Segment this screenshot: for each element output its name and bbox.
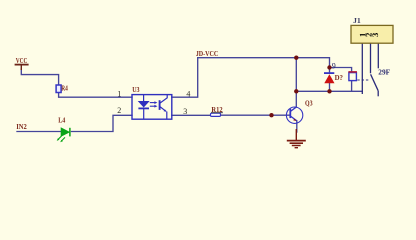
svg-text:VCC: VCC	[16, 56, 28, 65]
svg-text:3: 3	[183, 107, 187, 116]
svg-text:D?: D?	[335, 73, 344, 82]
svg-text:R4: R4	[61, 84, 68, 92]
svg-text:4: 4	[186, 90, 190, 99]
svg-text:29F: 29F	[378, 68, 390, 76]
svg-text:IN2: IN2	[16, 122, 27, 131]
svg-text:3: 3	[370, 33, 380, 37]
svg-text:J1: J1	[353, 16, 361, 25]
svg-text:Q3: Q3	[305, 100, 313, 108]
svg-text:JD-VCC: JD-VCC	[196, 49, 219, 58]
svg-text:2: 2	[117, 106, 121, 115]
svg-text:L4: L4	[58, 116, 65, 124]
svg-text:U3: U3	[132, 86, 140, 94]
svg-text:9: 9	[332, 62, 336, 71]
svg-text:1: 1	[117, 90, 121, 99]
